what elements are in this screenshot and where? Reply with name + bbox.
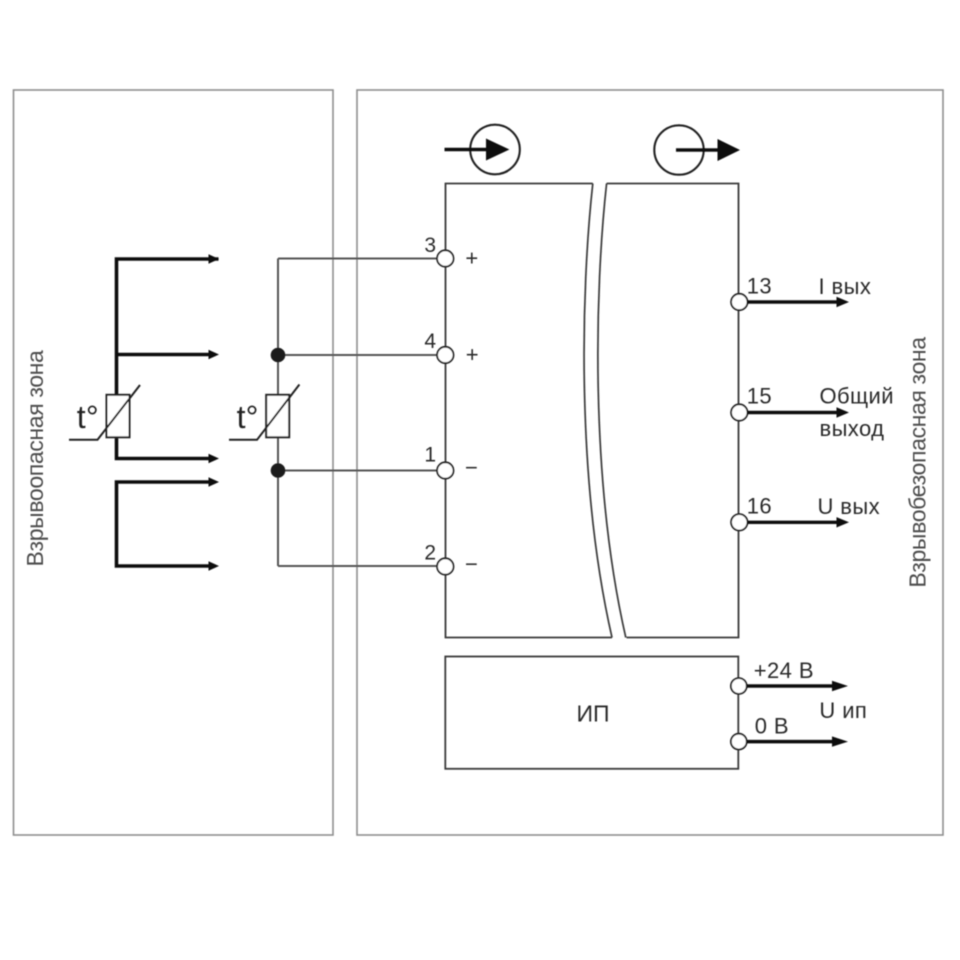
wire sensor2 to terminal 1 (278, 470, 440, 472)
isolation barrier curve right (598, 184, 626, 638)
svg-text:I вых: I вых (819, 274, 872, 299)
wire +24V arrow (747, 684, 834, 688)
terminal 3 circle (437, 250, 453, 266)
svg-text:t°: t° (77, 399, 99, 435)
terminal 4 circle (437, 347, 453, 363)
sensor1 arrow tip 1 (209, 254, 220, 264)
svg-text:выход: выход (820, 416, 885, 441)
device box left part (446, 184, 613, 638)
sensor2 wire lower vertical (277, 437, 279, 566)
terminal 2 circle (437, 558, 453, 574)
terminal 0V circle (731, 734, 747, 750)
svg-text:Общий: Общий (820, 384, 894, 409)
sensor1 wire below thermistor (117, 437, 209, 458)
thermistor RK1 diagonal (69, 385, 140, 440)
svg-text:15: 15 (747, 384, 772, 409)
hazardous zone border (14, 90, 334, 835)
sensor1 wire: top bracket with branch (117, 259, 219, 395)
junction dot B (271, 463, 286, 478)
svg-text:t°: t° (237, 399, 259, 435)
svg-text:1: 1 (424, 444, 436, 467)
input current symbol circle (470, 125, 520, 175)
svg-text:U ип: U ип (819, 698, 867, 723)
wire I out arrow (747, 300, 838, 303)
wire U out arrow (747, 521, 838, 524)
output current symbol circle (654, 125, 703, 174)
svg-text:+: + (466, 342, 479, 367)
sensor1 arrow tip 3 (209, 454, 220, 464)
isolation barrier curve left (584, 184, 612, 638)
svg-text:16: 16 (747, 494, 772, 519)
thermistor RK2 body (266, 395, 289, 438)
svg-text:Взрывобезопасная зона: Взрывобезопасная зона (905, 337, 931, 588)
terminal +24V circle (731, 678, 747, 694)
svg-text:4: 4 (424, 330, 436, 353)
sensor1 arrow tip 5 (209, 561, 220, 571)
terminal 16 circle (731, 514, 747, 530)
input current symbol arrow (445, 148, 489, 152)
wire 0V arrow (747, 740, 834, 744)
sensor1 arrow tip 4 (209, 477, 220, 487)
safe zone border (357, 90, 943, 835)
terminal 13 circle (731, 294, 747, 310)
svg-text:+24 В: +24 В (754, 658, 814, 683)
wire sensor2 to terminal 3 (278, 258, 440, 260)
sensor1 bottom bracket (117, 482, 209, 566)
wire sensor2 to terminal 4 (278, 354, 440, 356)
svg-text:−: − (465, 552, 478, 577)
wire sensor2 to terminal 2 (278, 565, 440, 567)
sensor1 arrow tip 2 (209, 350, 220, 360)
junction dot A (271, 348, 286, 363)
terminal 1 circle (437, 462, 453, 478)
svg-text:2: 2 (424, 542, 436, 565)
svg-text:ИП: ИП (576, 701, 609, 727)
wire common output arrow (747, 411, 838, 414)
thermistor RK1 body (107, 395, 130, 438)
svg-text:Взрывоопасная зона: Взрывоопасная зона (22, 350, 48, 566)
device box right part (607, 184, 739, 638)
svg-text:13: 13 (747, 274, 772, 299)
terminal 15 circle (731, 404, 747, 420)
sensor2 wire upper vertical (277, 259, 279, 395)
svg-text:U вых: U вых (818, 494, 881, 519)
svg-text:3: 3 (424, 234, 436, 257)
thermistor RK2 diagonal (229, 385, 299, 440)
svg-text:+: + (465, 246, 478, 271)
svg-text:0 В: 0 В (755, 714, 789, 739)
svg-text:−: − (465, 455, 478, 480)
power supply box ИП (445, 657, 738, 769)
output current symbol arrow (676, 148, 719, 152)
